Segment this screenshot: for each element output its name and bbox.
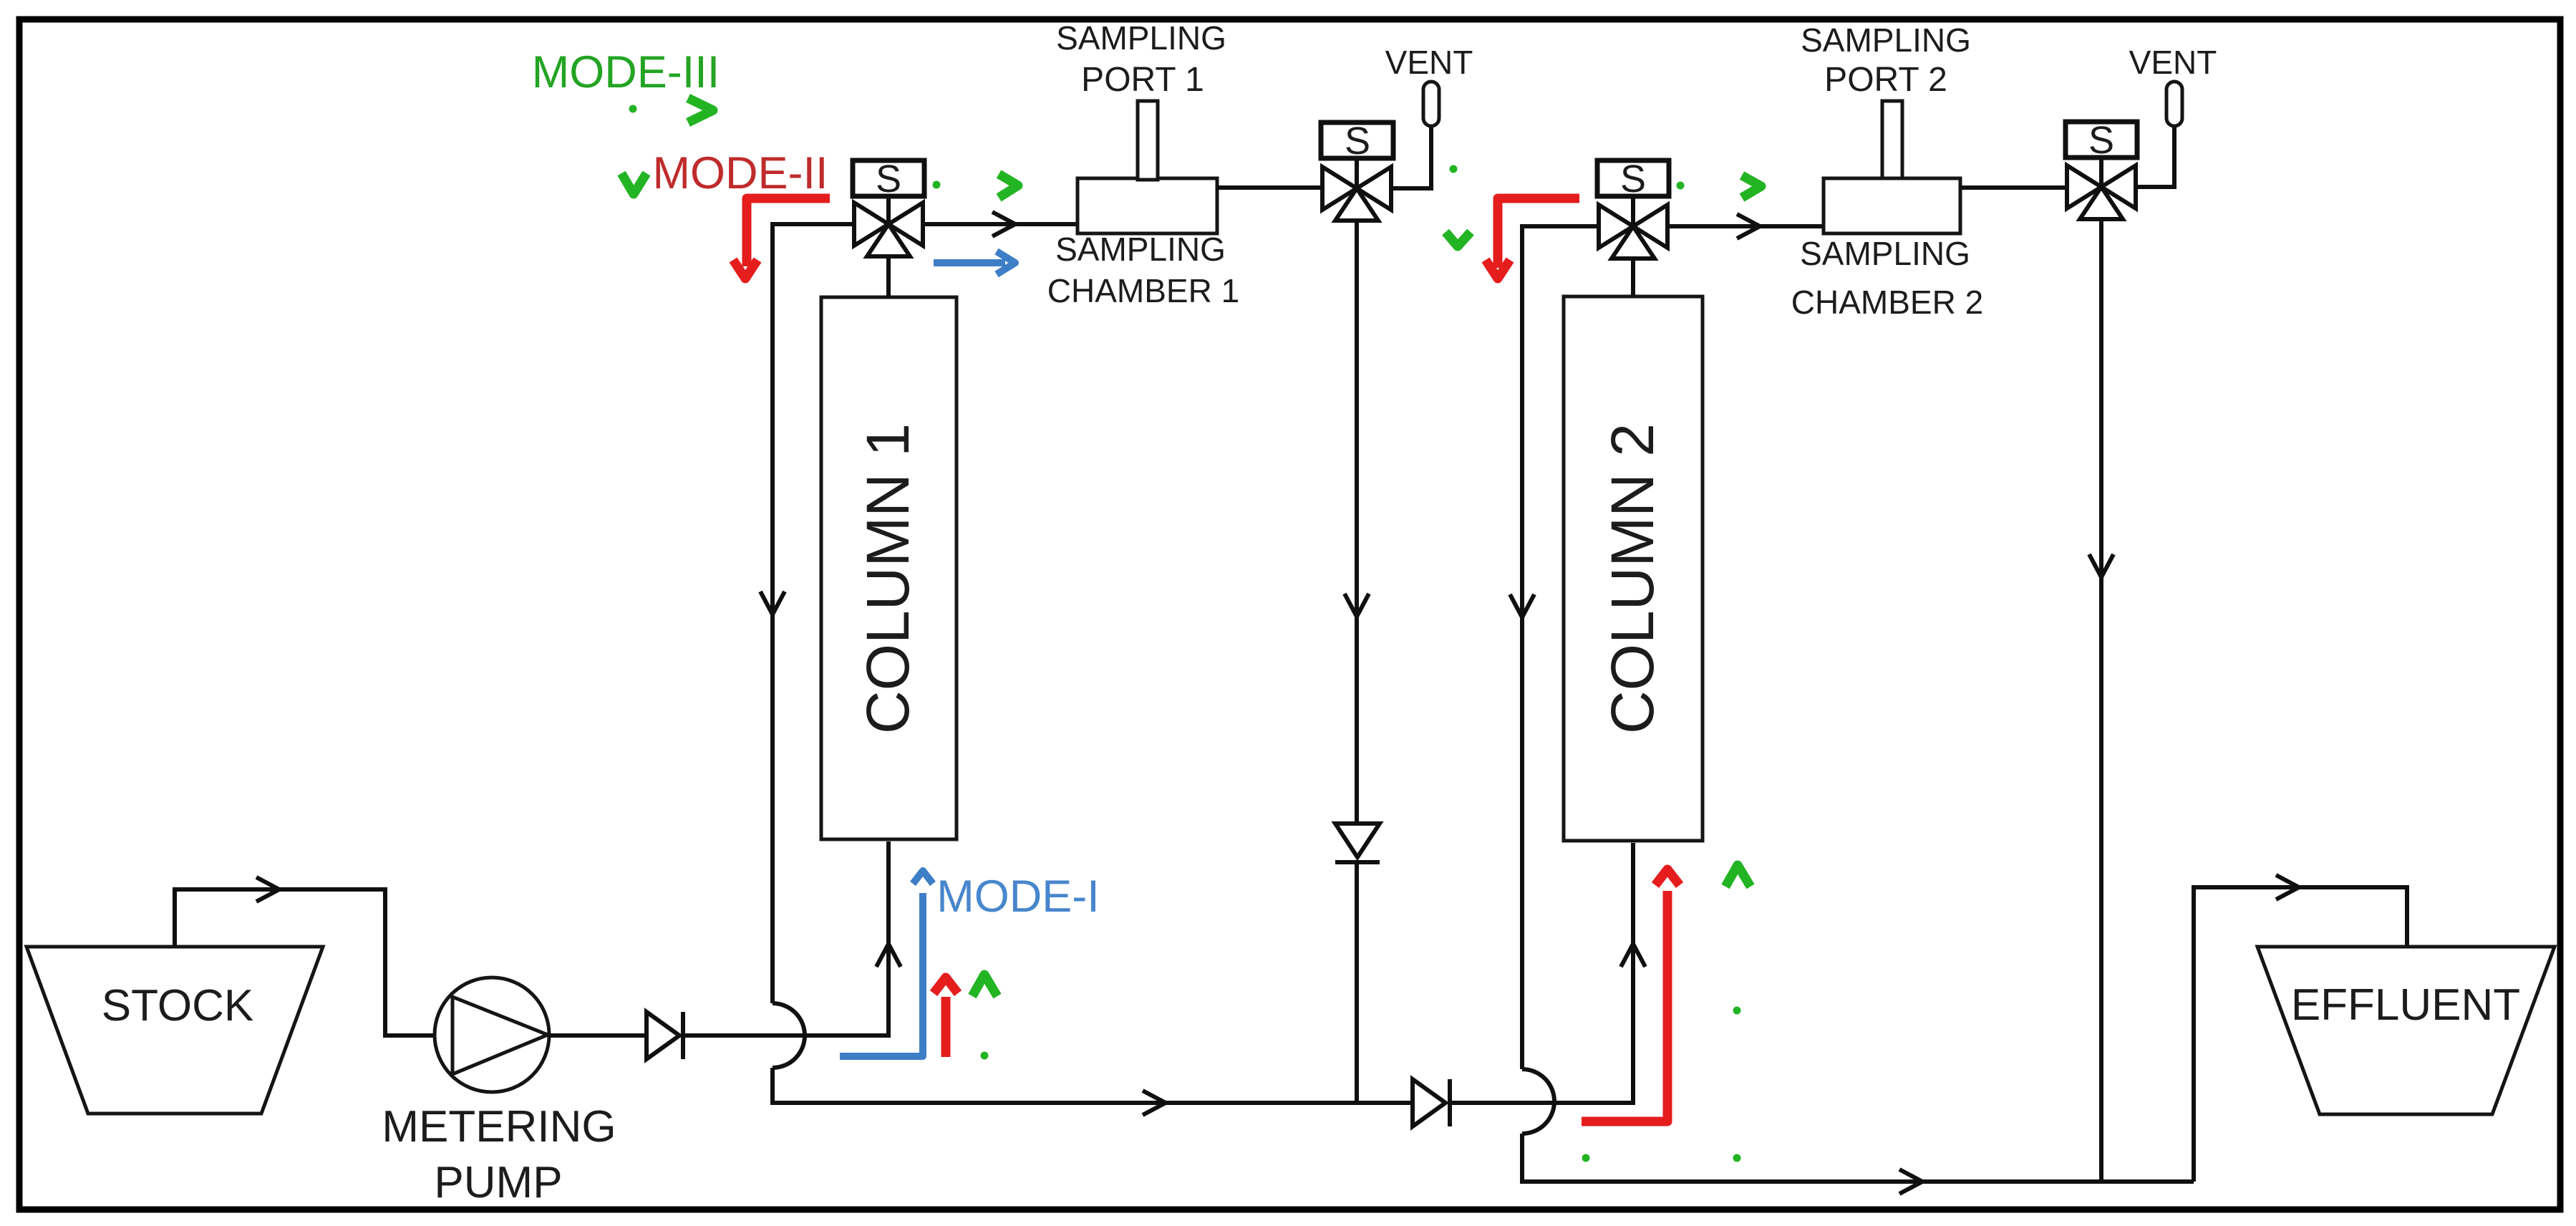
tank STOCK (26, 947, 323, 1114)
wire chamber 1 outlet to valve 2 (1217, 185, 1322, 190)
wire valve3 left port down the middle bypass (1522, 226, 1599, 1069)
svg-text:PORT 2: PORT 2 (1824, 61, 1947, 99)
arrow right on stock line (256, 877, 279, 902)
red arrow elbow up into column 2 (1582, 891, 1667, 1121)
svg-text:SAMPLING: SAMPLING (1800, 235, 1970, 272)
svg-text:VENT: VENT (1385, 44, 1473, 81)
pump METERING PUMP circle (435, 978, 549, 1092)
green dot 5 (981, 1052, 989, 1060)
green chevron right under MODE-III (688, 98, 713, 122)
svg-text:MODE-I: MODE-I (936, 872, 1099, 922)
svg-text:VENT: VENT (2129, 44, 2217, 81)
arrow right to chamber 1 (992, 212, 1015, 236)
sampling chamber 1 (1078, 178, 1217, 233)
vent 2 capsule (2166, 82, 2182, 126)
green chevron up at column 1 bottom (972, 975, 997, 996)
arrow up into column 2 (1621, 944, 1645, 967)
pump triangle (452, 997, 548, 1074)
wire feed to column 1 riser (683, 841, 888, 1036)
svg-text:SAMPLING: SAMPLING (1801, 21, 1971, 59)
svg-text:SAMPLING: SAMPLING (1055, 231, 1226, 268)
check valve CV2 on transfer line A (1413, 1079, 1446, 1126)
svg-text:COLUMN 1: COLUMN 1 (854, 423, 921, 734)
wire valve1 left port down the left bypass (773, 224, 854, 1003)
red arrow MODE-II elbow at valve 1 (747, 198, 830, 266)
svg-text:PORT 1: PORT 1 (1081, 61, 1204, 99)
check valve CV1 after pump (647, 1012, 679, 1059)
green dot 2 (933, 181, 941, 189)
svg-text:SAMPLING: SAMPLING (1056, 19, 1226, 57)
svg-text:S: S (1620, 158, 1646, 201)
svg-text:METERING: METERING (382, 1102, 616, 1152)
green dot 7 (1582, 1154, 1590, 1162)
svg-text:PUMP: PUMP (434, 1158, 562, 1207)
green dot 1 (629, 105, 637, 113)
wire valve4 bottom down to effluent line B (2099, 218, 2103, 1182)
valve V3 three-way solenoid above column 2 (1597, 158, 1669, 259)
blue arrow right of valve 1 (934, 259, 1005, 266)
svg-text:S: S (876, 158, 901, 201)
wire valve3 stem to column 2 top (1631, 254, 1635, 296)
column COLUMN 1 (821, 297, 957, 839)
green chevron down right of valve 2 (1446, 232, 1471, 246)
wire chamber 2 outlet to valve 4 (1960, 185, 2066, 190)
valve V1 three-way solenoid above column 1 (853, 158, 924, 256)
wire stock riser to pump inlet (175, 889, 436, 1036)
arrow down on vent2 drop line (2089, 554, 2113, 577)
wire valve3 right port to sampling chamber 2 (1667, 224, 1825, 228)
svg-text:STOCK: STOCK (102, 981, 253, 1030)
valve V2 three-way solenoid (vent 1) (1321, 120, 1393, 221)
wire valve1 right port to sampling chamber 1 (923, 222, 1079, 226)
wire pump outlet (549, 1033, 647, 1038)
svg-text:MODE-II: MODE-II (653, 148, 828, 198)
hop over transfer line A (1522, 1069, 1554, 1134)
svg-text:CHAMBER 2: CHAMBER 2 (1791, 284, 1983, 321)
wire bypass continues to bottom transfer line A (773, 1068, 1413, 1103)
green chevron right of valve 1 (999, 174, 1018, 198)
arrow down on left bypass (760, 592, 785, 614)
svg-text:EFFLUENT: EFFLUENT (2291, 980, 2520, 1030)
svg-text:S: S (2088, 119, 2114, 162)
arrow right on transfer line A (1143, 1091, 1166, 1115)
green dot 3 (1450, 165, 1458, 173)
arrow right to effluent tank (2276, 875, 2299, 899)
arrow right to chamber 2 (1737, 214, 1760, 238)
wire valve4 right port up to vent 2 (2136, 127, 2174, 187)
vent 1 capsule (1423, 82, 1439, 126)
green chevron down left of MODE-II (621, 173, 647, 194)
green chevron right of valve 3 (1742, 175, 1761, 198)
tank EFFLUENT (2257, 947, 2555, 1114)
svg-text:COLUMN 2: COLUMN 2 (1599, 423, 1666, 734)
arrow down on middle bypass (1510, 594, 1534, 617)
green dot 4 (1677, 182, 1685, 190)
wire effluent line B up and over to tank (2194, 887, 2407, 1182)
red arrow MODE-II elbow at valve 3 (1498, 198, 1579, 268)
wire CV3 down to transfer line A (1355, 862, 1359, 1103)
wire valve2 bottom down to check valve 3 (1355, 219, 1359, 824)
check valve CV3 vertical (1335, 824, 1380, 857)
arrow up into column 1 (876, 944, 901, 967)
blue arrow MODE-I elbow up into column 1 (840, 893, 923, 1056)
svg-text:S: S (1345, 120, 1370, 163)
sampling port 2 tube (1882, 101, 1902, 178)
arrow down on vent1 drop line (1345, 594, 1369, 617)
sampling port 1 tube (1138, 101, 1158, 180)
column COLUMN 2 (1564, 296, 1703, 841)
arrow right on effluent line B (1899, 1169, 1922, 1194)
wire transfer line A to column 2 riser (1450, 843, 1633, 1103)
red arrow up into column 1 (941, 997, 951, 1057)
green dot 6 (1733, 1007, 1741, 1015)
valve V4 three-way solenoid (vent 2) (2066, 119, 2137, 219)
wire valve2 right port up to vent 1 (1391, 127, 1431, 188)
svg-text:MODE-III: MODE-III (532, 47, 720, 97)
hop over pump line (773, 1003, 805, 1068)
sampling chamber 2 (1824, 178, 1960, 233)
svg-text:CHAMBER 1: CHAMBER 1 (1047, 272, 1239, 309)
wire valve1 stem to column 1 top (886, 252, 891, 297)
green dot 8 (1733, 1154, 1741, 1162)
wire bypass continues to bottom effluent line B (1522, 1134, 2194, 1182)
green chevron up at column 2 bottom (1725, 865, 1751, 887)
